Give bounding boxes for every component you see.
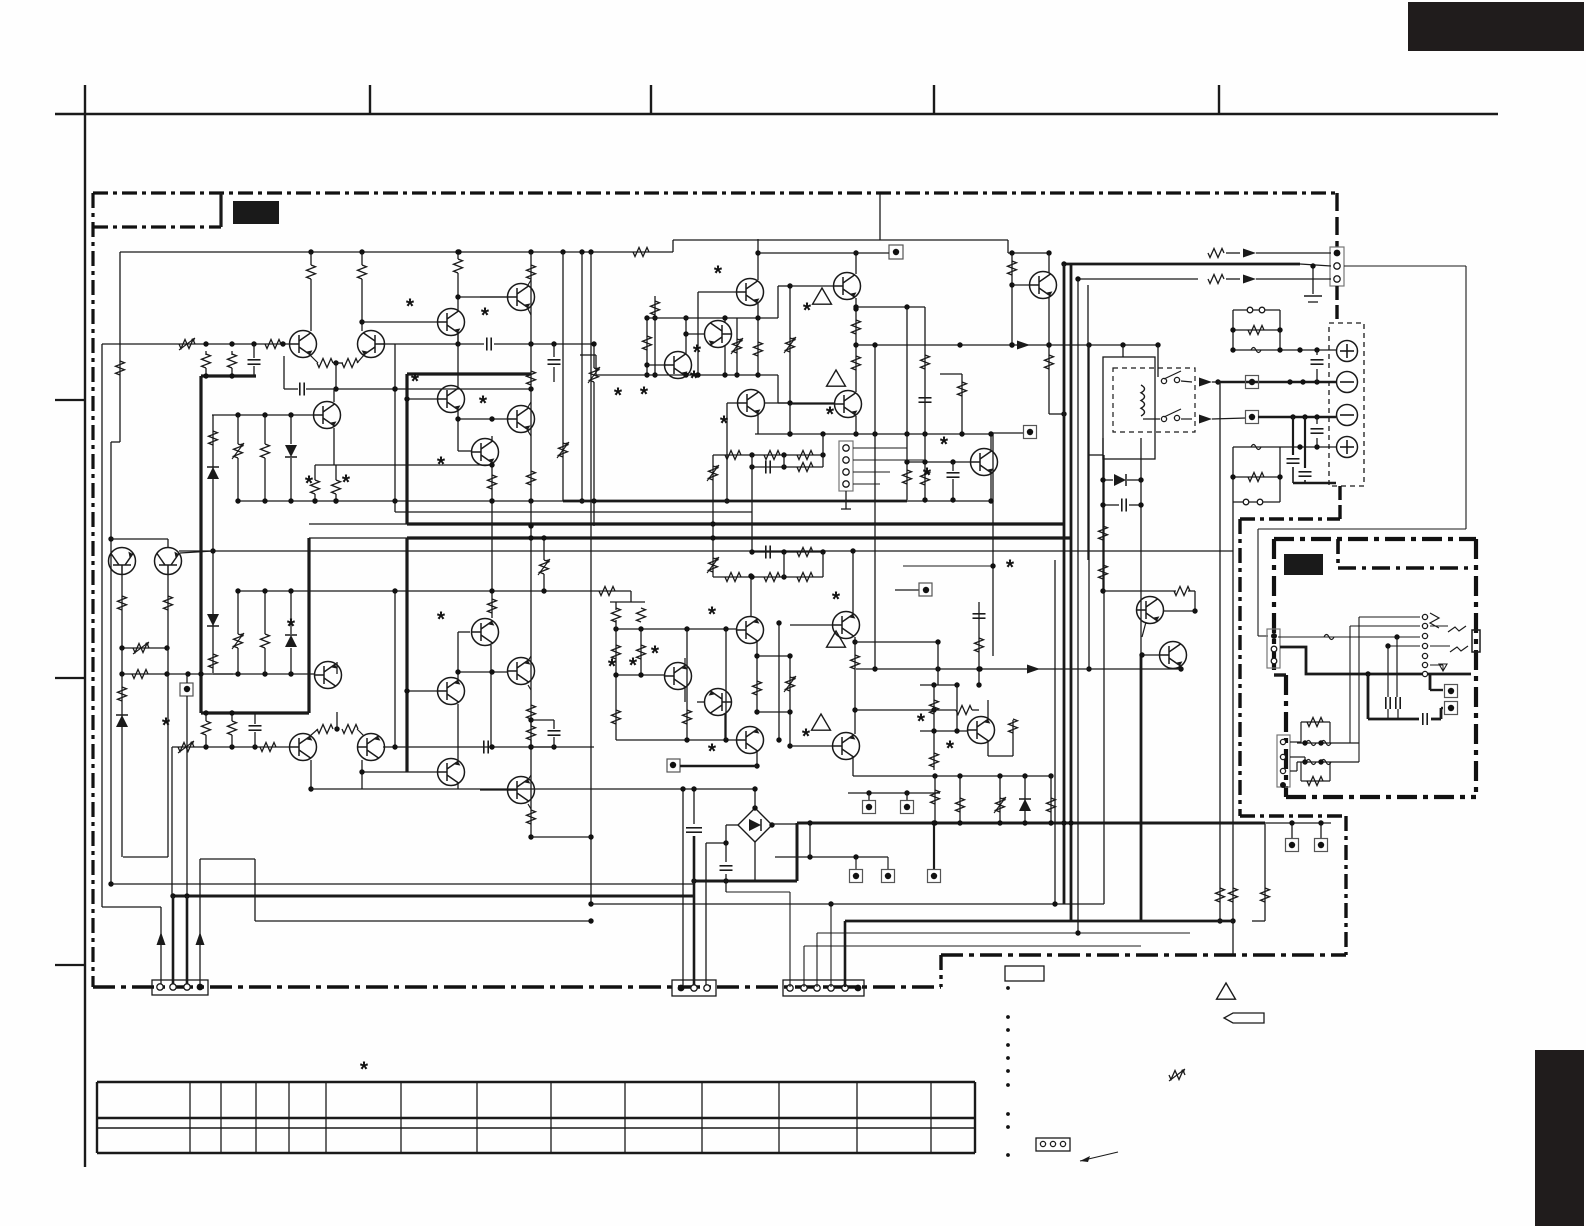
svg-text:*: * (479, 392, 488, 415)
svg-text:*: * (608, 655, 617, 678)
svg-text:*: * (923, 464, 932, 487)
svg-text:*: * (720, 412, 729, 435)
svg-text:*: * (287, 615, 296, 638)
svg-text:*: * (437, 608, 446, 631)
svg-text:*: * (162, 714, 171, 737)
svg-text:*: * (640, 383, 649, 406)
svg-text:*: * (481, 304, 490, 327)
svg-text:*: * (803, 299, 812, 322)
svg-text:*: * (437, 453, 446, 476)
svg-text:*: * (1006, 556, 1015, 579)
svg-text:*: * (342, 471, 351, 494)
svg-text:*: * (708, 603, 717, 626)
svg-text:*: * (917, 710, 926, 733)
svg-text:*: * (406, 295, 415, 318)
svg-text:*: * (693, 341, 702, 364)
svg-text:*: * (832, 588, 841, 611)
svg-text:*: * (708, 740, 717, 763)
svg-text:*: * (614, 384, 623, 407)
svg-text:*: * (946, 737, 955, 760)
svg-text:*: * (802, 725, 811, 748)
svg-text:*: * (411, 370, 420, 393)
svg-text:*: * (629, 654, 638, 677)
svg-text:*: * (826, 403, 835, 426)
svg-text:*: * (651, 642, 660, 665)
svg-text:*: * (305, 472, 314, 495)
svg-text:*: * (940, 433, 949, 456)
svg-text:*: * (714, 262, 723, 285)
svg-text:*: * (690, 367, 699, 390)
svg-text:*: * (360, 1058, 369, 1081)
